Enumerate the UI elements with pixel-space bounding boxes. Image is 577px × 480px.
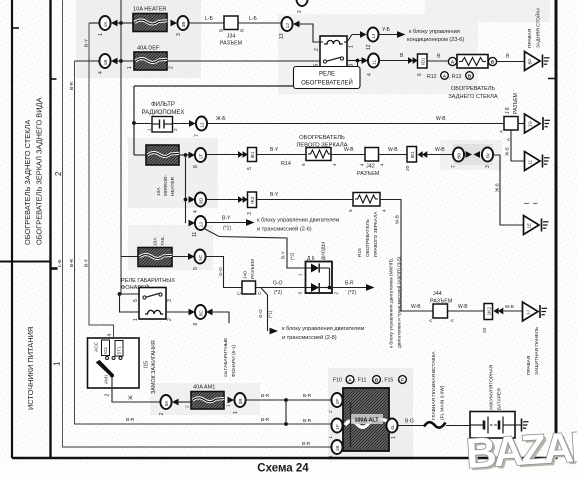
svg-text:1: 1 <box>328 436 333 439</box>
svg-text:AM1: AM1 <box>104 374 109 384</box>
connector oval 1T pin 8 <box>195 148 206 162</box>
connector oval 1B row3 <box>331 440 342 454</box>
svg-text:10A: 10A <box>156 187 162 196</box>
connector oval 1B pin 4 <box>99 54 110 68</box>
svg-text:12: 12 <box>366 44 372 50</box>
svg-text:B6: B6 <box>457 153 462 159</box>
svg-text:РАЗЪЕМ: РАЗЪЕМ <box>357 171 380 177</box>
wire to IK2 <box>206 199 238 201</box>
junction box IE1 pin 20 right <box>407 147 417 163</box>
svg-text:5: 5 <box>348 209 354 212</box>
wire junction link rows 1-2 <box>285 400 287 424</box>
svg-text:к блоку управления двигателем: к блоку управления двигателем <box>282 326 364 332</box>
svg-text:8D: 8D <box>199 197 204 204</box>
connector oval 5C pin 6 <box>195 305 206 319</box>
wire filter to oval <box>173 123 191 125</box>
svg-text:B·G: B·G <box>405 419 414 425</box>
svg-text:6: 6 <box>417 73 423 76</box>
svg-text:1J: 1J <box>371 34 376 39</box>
wire diagonal to diode box <box>205 229 306 268</box>
svg-text:IG1: IG1 <box>103 346 108 354</box>
wire diode out B-R <box>332 287 366 289</box>
svg-text:, F15: , F15 <box>382 378 394 384</box>
wire tail fuse out <box>172 256 189 258</box>
marker relay box <box>139 288 166 320</box>
bottom border of schematic <box>12 457 557 459</box>
wire mirror fuse out <box>179 154 189 156</box>
watermark BAZAR <box>465 422 577 480</box>
junction box 1K2 pin 20 <box>484 304 493 320</box>
svg-text:20: 20 <box>405 165 411 171</box>
svg-text:W-B: W-B <box>505 304 514 309</box>
arrow to engine control <box>246 219 255 226</box>
wire L-B vertical from top to battery row 3 <box>62 0 64 447</box>
svg-text:L-Б: L-Б <box>57 260 63 267</box>
svg-text:B-Y: B-Y <box>270 147 279 153</box>
terminal circle B of defogger <box>488 57 496 65</box>
wire bus to mirror fuse <box>134 154 146 156</box>
svg-text:2F: 2F <box>335 399 340 405</box>
diode junction dot <box>328 286 332 290</box>
connector oval 1J pin 12 <box>367 28 378 42</box>
arrow to AC control unit <box>397 31 406 38</box>
wire Y-B to AC control <box>379 34 398 36</box>
junction dot row2 <box>284 422 288 426</box>
wire heater row left <box>89 22 100 24</box>
ground triangle IG <box>525 114 541 133</box>
svg-text:ЗАДНЕГО СТЕКЛА: ЗАДНЕГО СТЕКЛА <box>448 94 497 100</box>
svg-text:B-R: B-R <box>261 417 270 423</box>
wire to engine control <box>206 222 246 224</box>
connector oval 1J pin 11 <box>195 216 206 230</box>
svg-text:РАЗЪЕМ: РАЗЪЕМ <box>220 41 243 47</box>
connector arrow at 5C6 right <box>206 309 213 316</box>
svg-text:IE1: IE1 <box>250 151 256 159</box>
wire L-B to J34 <box>189 22 225 24</box>
svg-text:6: 6 <box>193 323 199 326</box>
junction dot right mirror branch <box>184 198 188 202</box>
left band section divider <box>0 261 51 263</box>
svg-text:1: 1 <box>147 128 153 131</box>
relay coil pin leads <box>320 41 323 43</box>
svg-text:L-Б: L-Б <box>249 16 257 22</box>
svg-text:РАЗЪЕМ: РАЗЪЕМ <box>250 259 256 279</box>
junction dot defogger feed <box>119 59 123 63</box>
svg-text:3V: 3V <box>486 152 491 159</box>
svg-text:1: 1 <box>233 411 239 414</box>
svg-text:5K: 5K <box>164 400 169 407</box>
wire bus down to pin1 <box>120 294 140 312</box>
pair arrow right <box>466 151 473 158</box>
svg-text:3: 3 <box>176 33 182 36</box>
svg-text:J34: J34 <box>227 34 236 40</box>
svg-text:2: 2 <box>167 318 173 321</box>
svg-text:L-Б: L-Б <box>205 16 213 22</box>
svg-text:двигателем и трансмиссией (АКП: двигателем и трансмиссией (АКПП) (3-5) <box>396 256 403 348</box>
svg-text:W-B: W-B <box>458 304 468 310</box>
wire bus to tail fuse <box>121 256 138 258</box>
svg-text:100A ALT: 100A ALT <box>354 418 379 424</box>
svg-text:4: 4 <box>380 163 385 166</box>
chevrons out of 1K2 <box>494 308 499 315</box>
svg-text:1: 1 <box>53 361 62 366</box>
svg-text:4: 4 <box>332 163 338 166</box>
svg-text:4: 4 <box>367 73 373 76</box>
diode box D6 <box>306 262 333 294</box>
svg-text:B-Y: B-Y <box>270 192 279 198</box>
noise filter capacitor box <box>152 117 173 133</box>
diode D6a upper <box>311 264 319 273</box>
svg-text:ПРАВОГО ЗЕРКАЛА: ПРАВОГО ЗЕРКАЛА <box>373 211 379 257</box>
svg-text:9: 9 <box>193 267 199 270</box>
relay label box <box>294 67 361 89</box>
wire battery to ground <box>515 424 521 426</box>
left band tick mark section 1 start <box>51 267 58 270</box>
junction dot row1 <box>284 398 288 402</box>
ignition switch box I15 <box>88 338 140 388</box>
svg-text:к блоку управления: к блоку управления <box>409 29 460 35</box>
wire to marker lamps <box>213 312 230 323</box>
svg-text:4: 4 <box>193 210 199 213</box>
scan gray patch alt block <box>328 368 413 460</box>
svg-text:F10: F10 <box>333 378 342 384</box>
svg-text:4: 4 <box>98 71 104 74</box>
svg-text:7: 7 <box>194 134 200 137</box>
svg-text:3B: 3B <box>238 399 243 405</box>
wire mirror branch vertical <box>185 155 187 223</box>
wire junction to def fuse <box>118 60 135 62</box>
svg-text:Схема 24: Схема 24 <box>257 463 309 475</box>
svg-text:1: 1 <box>391 436 397 439</box>
wire bus vertical x121 from top through fuse feeds <box>120 0 122 294</box>
left band inner border <box>49 0 51 458</box>
svg-text:ID1: ID1 <box>420 57 426 65</box>
connector oval 5K <box>160 395 171 409</box>
svg-text:8: 8 <box>193 165 199 168</box>
svg-text:, F11: , F11 <box>355 378 367 384</box>
arrow diode out <box>366 284 375 291</box>
svg-text:1G: 1G <box>528 121 533 127</box>
ground symbol at IJ <box>540 305 547 318</box>
svg-text:см ГАБАРИТНЫЕ: см ГАБАРИТНЫЕ <box>223 338 229 377</box>
wire ignition out <box>112 377 161 402</box>
connector oval 3B pin 3 <box>177 16 188 30</box>
svg-text:TAIL: TAIL <box>160 236 166 246</box>
scan gray patch right top corner <box>425 0 550 22</box>
wire drop to mirror bus behind label <box>357 61 359 68</box>
svg-text:РАЗЪЕМ: РАЗЪЕМ <box>513 93 519 114</box>
wire def row left <box>75 60 100 62</box>
svg-text:ОБОГРЕВАТЕЛЬ: ОБОГРЕВАТЕЛЬ <box>451 86 495 92</box>
wire J8 to ground IG <box>518 123 525 125</box>
svg-text:40A DEF: 40A DEF <box>137 46 160 52</box>
junction box IK2 pin 3 <box>248 192 257 208</box>
wire B-R vertical from 40A DEF to battery row 2 <box>74 61 76 424</box>
svg-text:11: 11 <box>528 159 533 164</box>
relay coil <box>324 40 343 44</box>
svg-text:Ж-Б: Ж-Б <box>216 116 226 122</box>
connector oval 1K pin 1 <box>99 16 110 30</box>
left band tick mark section 2 start <box>51 78 57 80</box>
svg-text:W-B: W-B <box>435 147 445 153</box>
svg-text:W-B: W-B <box>436 116 446 122</box>
svg-text:B-R: B-R <box>69 258 75 267</box>
scan gray patch fuse cluster top <box>76 0 201 78</box>
wire to heater relay coil <box>300 24 321 42</box>
wire to IE1 connector <box>206 154 238 156</box>
connector arrow after AM1 fuse <box>228 397 235 404</box>
right border tick at rear-defogger section <box>548 78 556 80</box>
chevrons into ID1 <box>408 57 413 64</box>
resistor R15 right mirror heater <box>353 193 380 207</box>
svg-text:1: 1 <box>298 273 304 276</box>
svg-text:F: F <box>401 377 404 382</box>
diode internal bus <box>329 268 331 288</box>
svg-text:IE1: IE1 <box>410 151 416 159</box>
ground symbol at BP <box>543 55 550 68</box>
wire def fuse to relay contact <box>167 60 320 62</box>
ground symbol at IG <box>543 117 550 130</box>
left band outer border <box>11 0 13 458</box>
connector arrow after heater fuse <box>171 20 178 27</box>
svg-text:2: 2 <box>173 128 179 131</box>
svg-text:2: 2 <box>185 405 191 408</box>
fusible block 100A ALT <box>343 388 389 451</box>
svg-text:BP: BP <box>528 59 533 65</box>
svg-text:ПРАВАЯ: ПРАВАЯ <box>527 28 533 48</box>
svg-text:B-R: B-R <box>303 393 312 399</box>
svg-text:1L: 1L <box>372 59 377 65</box>
scan gray patch connector pair <box>440 140 502 170</box>
svg-text:R15: R15 <box>357 248 363 257</box>
svg-text:G-O: G-O <box>273 281 283 287</box>
svg-text:B-R: B-R <box>303 418 312 424</box>
junction connector J44 <box>433 304 448 318</box>
svg-text:Ж-Б: Ж-Б <box>505 147 510 156</box>
resistor R14 left mirror heater <box>306 148 331 161</box>
svg-text:5: 5 <box>247 167 253 170</box>
wire R14 to J42 <box>331 154 365 156</box>
svg-text:7: 7 <box>451 165 457 168</box>
wire tail to J40 <box>206 257 243 288</box>
connector oval 3B pin 1 <box>234 393 245 407</box>
svg-text:40A AM1: 40A AM1 <box>193 385 215 391</box>
wire J8 branch down to ground II <box>511 130 525 161</box>
svg-text:2: 2 <box>297 10 303 13</box>
svg-text:ГЛАВНАЯ ПЛАВКАЯ ВСТАВКА: ГЛАВНАЯ ПЛАВКАЯ ВСТАВКА <box>431 351 437 420</box>
wire relay pin3 out <box>347 60 362 62</box>
connector oval 1J pin 7 <box>196 117 207 131</box>
wire J42 to IE1b <box>379 154 408 156</box>
wire R15 to J44 <box>380 200 433 312</box>
svg-text:R12: R12 <box>427 74 437 80</box>
wire ID1 to defogger <box>427 60 448 62</box>
svg-text:13: 13 <box>279 33 285 39</box>
wire J40 to diode pin3 <box>256 287 306 289</box>
svg-text:ST1: ST1 <box>117 346 122 355</box>
junction connector J42 <box>365 148 379 162</box>
svg-text:и трансмиссией (2-6): и трансмиссией (2-6) <box>257 226 312 233</box>
svg-text:IK2: IK2 <box>250 196 256 204</box>
svg-text:W-B: W-B <box>388 147 398 153</box>
svg-text:РАДИОПОМЕХ: РАДИОПОМЕХ <box>142 110 185 116</box>
svg-text:(*2): (*2) <box>290 252 295 260</box>
svg-text:B-Y: B-Y <box>281 251 286 259</box>
chevrons into IE1 <box>238 151 243 158</box>
svg-text:B-Y: B-Y <box>222 216 231 222</box>
wire to mirror connector pair <box>428 154 453 156</box>
connector arrow at 8D4 <box>189 196 196 203</box>
diode D6b lower <box>311 283 319 292</box>
connector oval 4L alternator output <box>386 419 397 433</box>
wire B-Y to R14 <box>257 154 307 156</box>
svg-text:2: 2 <box>54 171 63 176</box>
pair arrow left <box>474 151 481 158</box>
fuse 10A MIRROR-HEATER <box>146 145 179 165</box>
svg-text:РЕЛЕ ГАБАРИТНЫХ: РЕЛЕ ГАБАРИТНЫХ <box>121 278 175 284</box>
svg-text:MIRROR-: MIRROR- <box>163 175 169 196</box>
ground triangle II <box>525 152 541 171</box>
fuse 40A AM1 <box>191 392 224 410</box>
svg-text:B: B <box>240 29 245 32</box>
svg-text:Ж-Б: Ж-Б <box>495 183 500 192</box>
svg-text:ЗАЩИТНАЯ ПАНЕЛЬ: ЗАЩИТНАЯ ПАНЕЛЬ <box>534 327 540 375</box>
connector pair shading <box>453 144 493 165</box>
connector oval 1L pin 4 <box>368 54 379 68</box>
svg-text:W-B: W-B <box>395 215 400 224</box>
wire bus to filter <box>134 123 152 125</box>
chevrons into IK2 <box>238 196 243 203</box>
svg-text:4: 4 <box>107 334 113 337</box>
left band tick mark top section <box>12 27 19 29</box>
relay contact circles <box>323 60 326 63</box>
svg-text:Y-Б: Y-Б <box>382 27 391 33</box>
wire B-Y to R15 <box>257 199 354 201</box>
diode D6a leads <box>306 267 312 269</box>
junction dot marker relay feed <box>118 292 122 296</box>
svg-text:3B: 3B <box>181 22 186 28</box>
relay U1 heaters relay box <box>320 36 347 67</box>
connector oval 3V pin 3 <box>482 148 493 162</box>
connector arrow at 5K <box>172 399 179 406</box>
svg-text:3: 3 <box>247 212 253 215</box>
box IG1 <box>102 340 110 356</box>
connector oval 8D pin 4 <box>195 193 206 207</box>
junction dot filter tap <box>132 121 136 125</box>
junction connector J8 <box>504 117 518 131</box>
svg-text:кондиционером (23-6): кондиционером (23-6) <box>407 37 464 43</box>
scan gray patch relay cluster <box>278 14 478 94</box>
wire B-Y vertical from 10A HEATER fuse to ignition switch <box>89 23 114 357</box>
main fusible link FL MAIN <box>424 422 446 427</box>
svg-text:2: 2 <box>169 66 175 69</box>
svg-text:ACC: ACC <box>94 341 100 352</box>
svg-text:, R13: , R13 <box>449 74 462 80</box>
svg-text:ОБОГРЕВАТЕЛЕЙ: ОБОГРЕВАТЕЛЕЙ <box>301 79 353 87</box>
wire branch to engine control 2-8 <box>261 288 268 331</box>
wire mirror bus vertical <box>133 86 135 155</box>
relay contact blade <box>326 57 341 61</box>
svg-text:1: 1 <box>98 33 104 36</box>
wire ALT to fusible link <box>398 425 425 427</box>
svg-text:J42: J42 <box>366 164 375 170</box>
wire AM1 to alternator fuse row1 <box>246 399 332 401</box>
fuse 10A TAIL <box>138 248 172 267</box>
ground symbol at IE <box>542 219 549 232</box>
svg-text:HEATER: HEATER <box>170 176 176 196</box>
svg-text:5: 5 <box>133 299 139 302</box>
chevrons out of IE1b <box>418 151 423 158</box>
svg-text:1J: 1J <box>200 123 205 128</box>
svg-text:(*2): (*2) <box>274 290 282 296</box>
marker relay contact blade <box>146 293 160 297</box>
connector arrow at 5C6 left <box>189 309 196 316</box>
junction dot relay output <box>356 59 360 63</box>
svg-text:1J: 1J <box>285 23 290 28</box>
battery box <box>470 412 515 439</box>
svg-text:к блоку управления двигателем: к блоку управления двигателем (МКПП), <box>389 258 395 348</box>
svg-text:Ж: Ж <box>128 396 133 402</box>
junction box ID1 pin 6 <box>418 54 428 68</box>
connector oval 1J pin 13 <box>281 17 292 31</box>
svg-text:10A: 10A <box>153 237 159 246</box>
svg-text:(*1): (*1) <box>268 310 273 318</box>
marker relay coil <box>145 310 163 314</box>
svg-text:B-R: B-R <box>69 81 75 90</box>
svg-text:5C: 5C <box>198 254 203 261</box>
svg-text:B-R: B-R <box>261 393 270 399</box>
svg-text:20: 20 <box>482 327 488 333</box>
svg-text:G-O: G-O <box>218 267 223 276</box>
junction connector J34 <box>224 16 238 30</box>
connector arrow at 1J11 <box>189 220 196 227</box>
svg-text:R14: R14 <box>281 161 291 167</box>
wire relay pin1 to oval 12 <box>347 35 361 43</box>
junction connector J40 <box>242 281 256 294</box>
svg-text:10A HEATER: 10A HEATER <box>133 7 166 13</box>
svg-text:1: 1 <box>226 404 232 407</box>
connector arrow at 1J13 <box>293 21 300 28</box>
junction dot heater feed <box>119 21 123 25</box>
svg-text:1B: 1B <box>335 446 340 452</box>
scan gray patch tail fuse <box>128 225 213 270</box>
svg-text:АККУМУЛЯТОРНАЯ: АККУМУЛЯТОРНАЯ <box>489 364 495 410</box>
svg-text:(*2): (*2) <box>348 290 356 296</box>
wire B-R row 2 horizontal <box>75 423 332 425</box>
connector oval 1F row2 <box>331 419 342 433</box>
wire L-B after J34 <box>238 22 281 24</box>
svg-text:1K: 1K <box>103 21 108 28</box>
svg-text:1J: 1J <box>526 310 531 315</box>
svg-text:БАТАРЕЯ: БАТАРЕЯ <box>497 388 503 410</box>
scan gray patch am1 fuse <box>150 383 260 415</box>
arrow to engine control 2-8 <box>270 328 279 335</box>
connector arrow at 1J12 <box>360 31 367 38</box>
svg-text:J 8: J 8 <box>505 107 511 114</box>
partial connector oval at top edge pin 2 <box>296 0 307 6</box>
wire 5K to AM1 fuse <box>179 401 192 403</box>
svg-text:B-Y: B-Y <box>84 258 90 267</box>
svg-text:1K2: 1K2 <box>486 307 492 316</box>
svg-text:B-R: B-R <box>126 417 135 423</box>
svg-text:3: 3 <box>485 165 491 168</box>
connector arrow at 1B <box>111 58 118 65</box>
svg-text:B-Y: B-Y <box>84 38 90 47</box>
svg-text:ФИЛЬТР: ФИЛЬТР <box>151 102 175 108</box>
svg-text:(FL MAIN 3.0W): (FL MAIN 3.0W) <box>440 385 446 420</box>
svg-text:2: 2 <box>328 410 333 413</box>
wire mirror bus horizontal <box>134 85 294 87</box>
